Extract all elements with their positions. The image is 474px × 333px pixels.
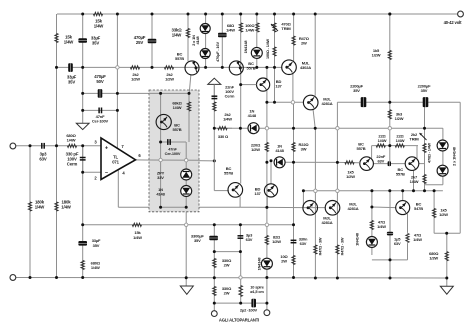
- resistor 680ohm fb: [81, 260, 84, 269]
- wire y251 node: [214, 251, 240, 253]
- transistor Q BD137 upper: [257, 78, 270, 91]
- resistor 47ohm a: [370, 220, 373, 229]
- wire left column x57: [56, 14, 58, 278]
- svg-text:1/4W: 1/4W: [91, 265, 100, 270]
- wire x83 upper: [82, 14, 84, 123]
- resistor 1k5 base: [345, 161, 354, 164]
- svg-text:AGLI ALTOPARLANTI: AGLI ALTOPARLANTI: [219, 318, 259, 323]
- wire x240 long column: [240, 14, 242, 184]
- svg-text:071: 071: [112, 159, 119, 164]
- svg-text:1/4W: 1/4W: [35, 204, 46, 209]
- junction x371 y207: [370, 206, 373, 209]
- wire y260 node: [372, 259, 408, 261]
- wire x461 right col: [459, 102, 461, 233]
- junction x424 y102: [423, 101, 426, 104]
- resistor 82ohm: [265, 235, 268, 244]
- svg-text:35V: 35V: [68, 79, 75, 84]
- junction x256 bottom: [255, 66, 258, 69]
- junction y67 x57: [55, 66, 58, 69]
- diode D 1N4148 b: [200, 49, 210, 59]
- wire box right col upper: [188, 93, 190, 142]
- transistor Q BC557B diff2: [405, 157, 419, 171]
- junction input a: [29, 144, 32, 147]
- wire BC547 base: [372, 206, 396, 209]
- transistor Q MJL4281A upper: [303, 95, 318, 110]
- junction y110 x83: [81, 109, 84, 112]
- resistor 1k5 top: [388, 50, 391, 59]
- wire BD137 emitter down: [266, 91, 268, 103]
- svg-text:Cerm: Cerm: [67, 161, 78, 166]
- diode D 1N4148 out: [261, 258, 272, 269]
- junction x240 y128: [239, 127, 242, 130]
- svg-text:557B: 557B: [173, 127, 182, 132]
- wire input y146: [15, 145, 101, 147]
- capacitor 33uF series: [68, 63, 73, 72]
- svg-text:1/4W: 1/4W: [396, 138, 405, 143]
- svg-text:R47Ω - 3W: R47Ω - 3W: [319, 237, 323, 255]
- svg-text:1N4148: 1N4148: [243, 40, 248, 54]
- junction input b: [55, 144, 58, 147]
- svg-text:2W: 2W: [224, 263, 230, 268]
- svg-text:ø1,5 cm: ø1,5 cm: [250, 289, 264, 294]
- resistor R47 3W a: [314, 245, 317, 254]
- transistor Q BC557B diff1: [360, 157, 374, 171]
- ground symbol mid: [180, 286, 193, 294]
- wire Q2 collector down: [413, 171, 415, 191]
- svg-text:35V: 35V: [92, 40, 99, 45]
- diode 1N4148 box: [181, 186, 192, 197]
- wire x293 zobel column: [293, 102, 295, 277]
- svg-text:557B: 557B: [357, 146, 366, 151]
- hop x186 y225: [185, 223, 188, 226]
- hop x117 y67: [116, 66, 119, 69]
- svg-text:40-42 volt: 40-42 volt: [444, 20, 463, 25]
- svg-text:2 x 1N4148: 2 x 1N4148: [452, 146, 457, 166]
- resistor 10ohm 2W: [292, 255, 295, 264]
- resistor 15k feedback: [132, 223, 141, 226]
- junction y67 BD137 collector: [265, 66, 268, 69]
- svg-text:1/2W: 1/2W: [165, 77, 174, 82]
- svg-text:63V: 63V: [246, 237, 253, 242]
- resistor 220ohm: [265, 142, 268, 151]
- wire x205 diode column: [205, 14, 207, 67]
- wire Q4 base drop: [302, 191, 304, 208]
- transistor Q BC557B mid: [229, 61, 243, 75]
- resistor 330ohm 2W a: [213, 258, 216, 267]
- svg-text:100Ω - 1/4W: 100Ω - 1/4W: [266, 38, 270, 59]
- svg-text:+: +: [105, 145, 108, 151]
- resistor R 180k a: [28, 202, 31, 211]
- capacitor 3u3 b: [238, 235, 244, 237]
- junction x388 y278: [389, 277, 392, 280]
- junction x266 y225 hop: [265, 223, 268, 226]
- junction x390 y102: [388, 101, 391, 104]
- hop x390 y128: [388, 127, 391, 130]
- svg-text:1/4W: 1/4W: [61, 204, 72, 209]
- wire BD137b vertical: [270, 161, 272, 184]
- svg-text:3W: 3W: [301, 147, 307, 152]
- diode D 1N4148 pair a: [437, 140, 448, 151]
- resistor R 180k b: [55, 202, 58, 211]
- svg-text:4148: 4148: [156, 192, 165, 197]
- junction box bottom right: [185, 206, 188, 209]
- svg-text:557B: 557B: [175, 56, 184, 61]
- junction 330pF top: [81, 144, 84, 147]
- junction x293 y162: [292, 161, 295, 164]
- resistor R47 3W: [292, 36, 295, 45]
- svg-text:1/4W: 1/4W: [378, 138, 387, 143]
- junction box cap left: [159, 141, 162, 144]
- svg-text:33V: 33V: [157, 175, 164, 180]
- junction x337 base: [336, 161, 339, 164]
- wire x256 diode column: [256, 14, 258, 67]
- svg-text:1/4W: 1/4W: [173, 105, 182, 110]
- wire x83 lower: [82, 146, 84, 278]
- wire y231 bend: [434, 232, 460, 234]
- junction rail x83: [81, 13, 84, 16]
- wire 1k5 base wire: [337, 161, 359, 163]
- wire Q5 emitter col: [336, 102, 338, 278]
- wire Q4 emitter col: [314, 128, 316, 278]
- hop x266 y128: [265, 127, 268, 130]
- wire x214 column: [213, 85, 215, 191]
- wire BC547 collector: [402, 191, 404, 201]
- wire box cap wire: [161, 141, 187, 143]
- wire x424 column: [424, 102, 426, 191]
- junction diode col bottom: [204, 66, 207, 69]
- junction box bottom left: [159, 206, 162, 209]
- svg-text:137: 137: [275, 83, 282, 88]
- resistor 68k: [187, 102, 190, 111]
- terminal input ground: [10, 275, 16, 281]
- svg-text:4281A: 4281A: [321, 101, 332, 106]
- wire y67 rail: [57, 66, 283, 68]
- junction y67 x83: [81, 66, 84, 69]
- svg-text:1/4W: 1/4W: [223, 117, 232, 122]
- svg-text:63V: 63V: [394, 241, 401, 246]
- capacitor 2u2 100V: [251, 299, 256, 308]
- svg-text:470µF - 16V: 470µF - 16V: [215, 42, 220, 62]
- junction y110 x118: [116, 109, 119, 112]
- wire bottom ground rail: [15, 277, 447, 280]
- svg-text:1/4W: 1/4W: [133, 235, 142, 240]
- terminal speaker b: [264, 310, 270, 316]
- junction rail x389 dup: [388, 13, 391, 16]
- wire y225 output: [83, 224, 294, 226]
- wire x293 R47 column: [293, 14, 295, 61]
- transistor Q BC557B left: [185, 61, 199, 75]
- wire Q3 emitter bend: [239, 196, 241, 207]
- svg-text:1/2W: 1/2W: [346, 174, 355, 179]
- svg-text:TRIM: TRIM: [409, 137, 419, 142]
- wire x187 ground drop: [185, 212, 187, 286]
- resistor R22 3W: [292, 142, 295, 151]
- wire x214 to terminal: [213, 237, 215, 311]
- junction x266 y162: [265, 161, 268, 164]
- wire Q2 emitter up: [416, 146, 418, 159]
- transistor Q BD137 lower: [264, 184, 277, 197]
- svg-text:63V: 63V: [300, 241, 307, 246]
- junction box top right: [188, 92, 191, 95]
- resistor 47ohm b: [406, 233, 409, 242]
- wire opamp inverting input: [83, 171, 101, 173]
- wire x152 column: [151, 14, 153, 67]
- wire x315 collector up: [314, 14, 316, 96]
- junction x214 y128: [213, 127, 216, 130]
- resistor 68ohm: [239, 23, 242, 32]
- wire BC547 emitter col: [407, 214, 409, 233]
- junction x315 y278: [314, 277, 317, 280]
- svg-text:25V: 25V: [136, 40, 143, 45]
- svg-text:547B: 547B: [414, 206, 423, 211]
- junction x240 y225: [239, 223, 242, 226]
- svg-text:557B: 557B: [247, 66, 256, 71]
- resistor 15k top: [93, 12, 102, 15]
- junction rail x117: [116, 13, 119, 16]
- wire x436 1k5 col: [433, 191, 435, 234]
- wire y145 tail: [372, 145, 418, 147]
- wire Q3 base bend: [214, 190, 229, 192]
- svg-text:4148: 4148: [195, 35, 200, 44]
- svg-text:1/4W: 1/4W: [172, 32, 183, 37]
- ground symbol left: [76, 123, 89, 129]
- resistor 22ohm a: [376, 144, 385, 147]
- resistor 470ohm quarter: [423, 143, 426, 152]
- wire x30 column: [29, 146, 31, 278]
- wire opamp pin4 down: [117, 169, 119, 207]
- wire box bottom wire: [161, 206, 187, 208]
- svg-text:35V: 35V: [421, 88, 428, 93]
- wire x388 col: [389, 191, 391, 278]
- wire box top redraw: [149, 92, 189, 94]
- wire box left col: [160, 93, 162, 207]
- transistor Q BC557B vas: [228, 183, 243, 198]
- svg-text:1/4W: 1/4W: [64, 39, 75, 44]
- diode D 1N4148 a: [200, 24, 210, 34]
- junction x266 y102: [265, 101, 268, 104]
- junction x214 y225: [213, 223, 216, 226]
- wire 680 half watt col: [446, 233, 448, 286]
- hop y190 x315: [314, 189, 317, 192]
- wire y303 speaker: [214, 302, 267, 304]
- capacitor 2200uF a: [361, 97, 367, 107]
- hop x240 y277: [239, 276, 242, 279]
- resistor 680ohm half: [445, 252, 448, 261]
- junction x266 y207: [265, 206, 268, 209]
- svg-text:1/4W: 1/4W: [413, 237, 422, 242]
- svg-text:63V: 63V: [377, 158, 384, 163]
- wire diode col bottom tee: [425, 184, 443, 186]
- wire x240 lower column: [239, 225, 241, 252]
- svg-text:1/2W: 1/2W: [272, 239, 281, 244]
- capacitor 3300uF: [209, 236, 218, 241]
- svg-text:1/4W: 1/4W: [226, 28, 235, 33]
- resistor 2k2 a: [130, 66, 139, 69]
- wire x315 emitter down: [313, 109, 315, 128]
- wire y128 bias wire: [214, 127, 443, 129]
- wire y93 supply-opamp: [83, 92, 189, 94]
- svg-text:Cer-100V: Cer-100V: [165, 151, 181, 156]
- wire Q2 base stub: [419, 163, 425, 165]
- svg-text:−: −: [105, 171, 108, 177]
- wire MJL4302A emitter: [292, 73, 294, 103]
- wire top supply rail: [57, 13, 458, 15]
- resistor 330ohm: [218, 127, 227, 130]
- resistor 100ohm second: [273, 47, 276, 56]
- junction ground x83: [81, 276, 84, 279]
- resistor 3k3: [388, 110, 391, 119]
- svg-text:4148: 4148: [275, 148, 284, 153]
- junction opamp out x214: [213, 159, 216, 162]
- junction x293 y277: [292, 276, 295, 279]
- zener 2PY 33V: [181, 169, 192, 180]
- wire x266 column upper: [266, 67, 268, 79]
- resistor 33k: [186, 28, 189, 37]
- svg-text:330 Ω: 330 Ω: [218, 134, 229, 139]
- svg-text:2W: 2W: [281, 259, 287, 264]
- svg-text:4148: 4148: [248, 113, 257, 118]
- op-amp U1 TL071: [101, 138, 136, 180]
- wire y102 output rail: [337, 101, 460, 103]
- wire diode to base: [285, 161, 337, 163]
- svg-text:Cer-100V: Cer-100V: [92, 119, 109, 124]
- svg-text:35V: 35V: [93, 243, 100, 248]
- wire Q192 collector drop: [189, 74, 191, 93]
- wire x274 trim column: [274, 14, 276, 102]
- junction y93 x118: [116, 92, 119, 95]
- wire box zener col: [185, 142, 187, 207]
- svg-text:1/2W: 1/2W: [131, 77, 140, 82]
- hop x293 y102: [291, 101, 294, 104]
- junction y251 a: [213, 250, 216, 253]
- svg-text:470Ω - 1/4W: 470Ω - 1/4W: [428, 142, 432, 163]
- junction x214 y277: [213, 276, 216, 279]
- svg-text:1/4W: 1/4W: [377, 224, 386, 229]
- hop output x160: [159, 158, 162, 161]
- inductor L 10 turns: [239, 286, 243, 297]
- wire BD137 base stub: [241, 84, 257, 86]
- capacitor 22nF cer: [212, 95, 218, 97]
- junction BD137 base: [239, 83, 242, 86]
- svg-text:1/2W: 1/2W: [429, 255, 438, 260]
- wire speaker terminal drop: [266, 278, 268, 310]
- junction rail dots: [187, 13, 190, 16]
- trimmer 470ohm: [273, 23, 276, 32]
- junction x388 y260: [389, 258, 392, 261]
- capacitor 1u5 63V: [387, 232, 393, 236]
- wire 330pF branch: [82, 146, 84, 172]
- capacitor C1 3u3: [41, 143, 43, 149]
- diode D 1N4148 pair b: [437, 165, 448, 176]
- hop x337 y128: [336, 127, 339, 130]
- capacitor 47nF cer: [98, 108, 100, 114]
- svg-text:R47Ω - 3W: R47Ω - 3W: [341, 237, 345, 255]
- wire diode pair col: [442, 128, 444, 185]
- junction y93 x83: [81, 92, 84, 95]
- transistor Q MJL4281A out2: [325, 201, 340, 216]
- resistor 15k vertical: [55, 33, 58, 42]
- wire x222 cap column: [221, 14, 223, 67]
- junction rail x152: [151, 13, 154, 16]
- wire base to cap: [374, 163, 405, 165]
- svg-text:4281A: 4281A: [347, 206, 358, 211]
- junction y251 b: [239, 250, 242, 253]
- dashed bias network box: [149, 90, 199, 212]
- capacitor 22nF 63V: [388, 161, 391, 166]
- junction tail: [388, 144, 391, 147]
- diode D 1N4148 vas: [248, 123, 259, 134]
- svg-text:1/4W: 1/4W: [67, 137, 76, 142]
- wire x389 top column: [389, 14, 391, 145]
- resistor 22ohm b: [395, 144, 404, 147]
- wire 330ohm stub: [214, 127, 232, 129]
- svg-text:4302A: 4302A: [300, 65, 311, 70]
- junction 330pF bottom: [81, 171, 84, 174]
- svg-text:35V: 35V: [353, 88, 360, 93]
- svg-text:1/4W: 1/4W: [245, 28, 254, 33]
- junction y190 x303: [302, 189, 305, 192]
- svg-text:557B: 557B: [224, 171, 233, 176]
- junction box top left: [159, 92, 162, 95]
- junction y67 x152: [151, 66, 154, 69]
- transistor Q MJL4281A out1: [303, 201, 318, 216]
- resistor 680ohm input: [67, 144, 76, 147]
- transistor Q BC547B: [396, 201, 410, 215]
- svg-text:50V: 50V: [96, 79, 103, 84]
- svg-text:63V: 63V: [39, 156, 46, 161]
- svg-text:1N4148: 1N4148: [355, 232, 360, 246]
- wire x266 column lower: [266, 102, 268, 277]
- wire x214 lower column: [213, 225, 215, 237]
- junction y190 x390: [388, 189, 391, 192]
- wire x187 bias column: [187, 14, 189, 61]
- wire y207 to driver: [240, 206, 303, 208]
- terminal speaker a: [211, 311, 217, 317]
- junction x267 y277: [265, 276, 268, 279]
- resistor 100ohm top: [256, 23, 259, 32]
- resistor R47 3W b: [336, 245, 339, 254]
- svg-text:1/2W: 1/2W: [372, 53, 381, 58]
- junction y190 x371: [370, 189, 373, 192]
- hop x337 y190: [336, 189, 339, 192]
- junction x214 y303: [213, 302, 216, 305]
- junction ground x57: [55, 276, 58, 279]
- junction ground x30: [29, 276, 32, 279]
- junction x222 bottom: [221, 66, 224, 69]
- svg-text:1N4148: 1N4148: [257, 257, 262, 271]
- junction y190 x436: [433, 189, 436, 192]
- junction y190 x424: [423, 189, 426, 192]
- wire y207 through drivers: [303, 207, 325, 209]
- capacitor 47nF box: [167, 139, 169, 145]
- svg-text:TRIM: TRIM: [281, 26, 291, 31]
- wire x240 zobel coil column: [240, 252, 242, 304]
- wire 3k3 joint: [389, 145, 391, 161]
- svg-text:1/2W: 1/2W: [439, 212, 448, 217]
- wire opamp pin7 supply: [116, 14, 118, 148]
- capacitor 470uF 16V: [218, 33, 227, 38]
- svg-text:35V: 35V: [194, 238, 201, 243]
- diode D 1N4148 bias: [251, 47, 262, 58]
- resistor 1k5 right: [433, 208, 436, 217]
- svg-text:Cerm: Cerm: [225, 94, 235, 99]
- junction y190 x413: [412, 189, 415, 192]
- resistor 330ohm 2W b: [213, 286, 216, 295]
- svg-text:1/2W: 1/2W: [251, 147, 260, 152]
- svg-text:557B: 557B: [396, 171, 405, 176]
- resistor 2k7: [423, 174, 426, 183]
- capacitor 33uF top: [78, 38, 87, 43]
